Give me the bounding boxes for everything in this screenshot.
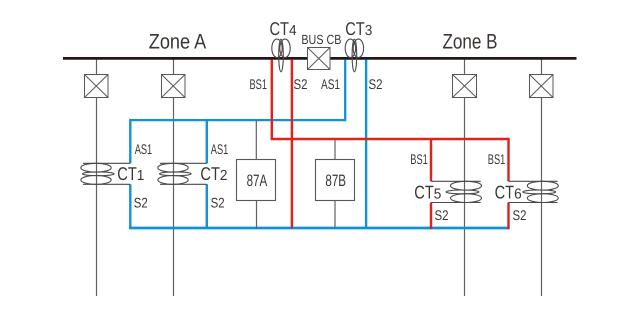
svg-text:BS1: BS1 bbox=[488, 151, 506, 167]
svg-text:87A: 87A bbox=[247, 172, 268, 190]
svg-text:BS1: BS1 bbox=[410, 151, 428, 167]
relay 87A bbox=[237, 160, 276, 201]
bus bar bbox=[63, 57, 577, 60]
svg-text:S2: S2 bbox=[211, 195, 225, 211]
feeder 3 wire bbox=[464, 60, 466, 297]
relay 87A bottom lead wire bbox=[256, 201, 258, 229]
svg-text:S2: S2 bbox=[435, 207, 449, 223]
feeder 2 wire bbox=[173, 60, 175, 297]
zone B red loop: CT4 BS1 lead + top horizontal wire bbox=[272, 60, 509, 140]
zone A: CT3 S2 drop wire bbox=[365, 60, 367, 229]
CT2 bbox=[158, 163, 207, 184]
CT5 bbox=[431, 181, 482, 202]
feeder 1 wire bbox=[96, 60, 98, 297]
svg-text:BS1: BS1 bbox=[250, 76, 268, 92]
zone A: CT1 S2 lead wire bbox=[129, 184, 131, 228]
zone B: CT6 BS1 lead wire bbox=[507, 138, 509, 182]
relay 87B bbox=[316, 160, 355, 201]
relay 87A top lead wire bbox=[255, 120, 257, 159]
zone A: CT2 S2 lead wire bbox=[206, 184, 208, 228]
svg-text:Zone B: Zone B bbox=[443, 31, 498, 54]
svg-text:AS1: AS1 bbox=[321, 76, 340, 92]
circuit breaker CB1 bbox=[85, 75, 109, 98]
svg-text:BUS CB: BUS CB bbox=[301, 32, 341, 47]
zone B: CT6 S2 lead wire bbox=[507, 203, 509, 230]
circuit breaker CB4 bbox=[530, 75, 554, 98]
svg-text:S2: S2 bbox=[294, 76, 308, 92]
svg-text:87B: 87B bbox=[325, 172, 346, 190]
common S2 bottom return wire bbox=[129, 227, 508, 230]
zone A: CT2 AS1 lead wire bbox=[206, 120, 208, 163]
CT1 bbox=[81, 163, 131, 184]
svg-text:AS1: AS1 bbox=[211, 141, 229, 157]
feeder 4 wire bbox=[541, 60, 543, 297]
zone B: CT4 S2 drop wire bbox=[291, 60, 293, 229]
zone B: CT5 S2 lead wire bbox=[430, 203, 432, 230]
svg-text:AS1: AS1 bbox=[135, 141, 153, 157]
bus coupler breaker BUS CB bbox=[308, 48, 331, 70]
relay 87B top lead wire bbox=[334, 139, 336, 160]
svg-text:S2: S2 bbox=[513, 207, 527, 223]
svg-text:S2: S2 bbox=[134, 195, 148, 211]
CT3 bbox=[345, 39, 363, 72]
zone B: CT5 BS1 lead wire bbox=[430, 139, 432, 181]
svg-text:Zone A: Zone A bbox=[149, 31, 207, 54]
zone A blue loop: top horizontal wire bbox=[130, 60, 345, 121]
relay 87B bottom lead wire bbox=[334, 201, 336, 229]
CT6 bbox=[509, 181, 559, 202]
circuit breaker CB2 bbox=[162, 75, 186, 98]
CT4 bbox=[272, 39, 290, 72]
zone A: CT1 AS1 lead wire bbox=[129, 119, 131, 163]
circuit breaker CB3 bbox=[453, 75, 477, 98]
svg-text:S2: S2 bbox=[369, 76, 383, 92]
